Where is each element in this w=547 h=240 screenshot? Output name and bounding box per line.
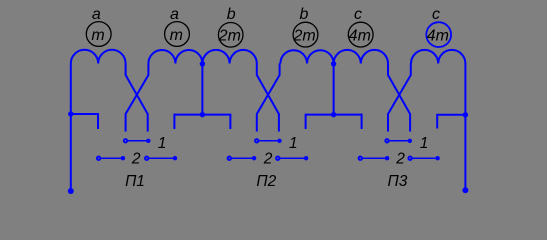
switch П2 row 2 left dot [252, 156, 256, 160]
switch П2 contact row 1 bar [258, 140, 279, 142]
inductor winding L3 (section b, value 2m) [202, 50, 256, 64]
switch П1 row 2 left dot [121, 156, 125, 160]
wire crossover X1: L2 left lead [126, 64, 149, 132]
svg-text:m: m [91, 27, 104, 44]
svg-text:a: a [170, 6, 179, 23]
svg-text:c: c [354, 6, 362, 23]
switch П2 row 2 right bar [279, 157, 305, 159]
switch П1 row 1 dot [146, 139, 150, 143]
svg-text:П1: П1 [125, 173, 145, 190]
switch П3 row 1 dot [408, 139, 412, 143]
wire crossover X2: L3 right lead [257, 64, 279, 132]
svg-text:a: a [92, 6, 101, 23]
inductor winding L4 (section b, value 2m) [280, 50, 333, 63]
inductor winding L1 (section a, value m) [71, 50, 126, 64]
value circle of L4 [293, 22, 318, 47]
wire crossover X1: L1 right lead [126, 64, 148, 132]
value circle of L2 [165, 22, 190, 47]
svg-text:1: 1 [158, 135, 167, 152]
wire crossover X3: L5 right lead [388, 64, 410, 132]
switch П2 row 1 dot [277, 139, 281, 143]
svg-text:4m: 4m [349, 27, 371, 44]
left terminal dot [68, 188, 74, 194]
inductor winding L2 (section a, value m) [148, 50, 202, 63]
wire bus 2 [306, 115, 362, 129]
switch П3 contact row 1 bar [388, 140, 409, 142]
switch П2 row 1 pivot ring [255, 139, 258, 142]
junction bus 2 node [331, 112, 336, 117]
svg-text:m: m [170, 27, 183, 44]
svg-text:2m: 2m [218, 27, 241, 44]
switch П3 row 2 right dot [435, 156, 439, 160]
wire crossover X3: L6 left lead [388, 64, 411, 132]
junction right terminal node [463, 112, 468, 117]
value circle of L5 [348, 22, 373, 47]
switch П1 row 2 right pivot ring [145, 157, 148, 160]
svg-text:2: 2 [395, 151, 405, 168]
wire bus 1 [174, 115, 230, 129]
switch П3 row 2 left pivot ring [359, 157, 362, 160]
wire right terminal lead [464, 64, 466, 191]
switch П1 row 2 left bar [100, 157, 122, 159]
switch П2 row 2 left pivot ring [228, 157, 231, 160]
switch П1 contact row 1 bar [127, 140, 148, 142]
switch П2 row 2 right dot [304, 156, 308, 160]
value circle of L6 (blue) [426, 22, 451, 47]
junction tap2 top node [331, 61, 336, 66]
wire right terminal branch to switch П3 [437, 115, 465, 129]
switch П3 row 2 left dot [385, 156, 389, 160]
svg-text:2m: 2m [292, 27, 315, 44]
right terminal dot [462, 187, 468, 193]
junction tap1 top node [200, 61, 205, 66]
svg-text:П3: П3 [387, 173, 407, 190]
wire crossover X2: L4 left lead [257, 64, 280, 132]
junction bus 1 node [200, 112, 205, 117]
switch П1 row 2 right dot [173, 156, 177, 160]
svg-text:c: c [432, 6, 440, 23]
switch П3 row 2 right pivot ring [408, 157, 411, 160]
svg-text:2: 2 [263, 151, 273, 168]
wire left terminal branch to switch П1 [71, 114, 98, 129]
value circle of L1 [86, 22, 111, 47]
switch П1 row 1 pivot ring [124, 139, 127, 142]
svg-text:1: 1 [289, 135, 298, 152]
svg-text:2: 2 [131, 151, 141, 168]
svg-text:b: b [227, 6, 236, 23]
switch П3 row 1 pivot ring [385, 139, 388, 142]
svg-text:1: 1 [420, 135, 429, 152]
value circle of L3 [218, 23, 243, 48]
svg-text:b: b [300, 6, 309, 23]
wire tap of node between L4 and L5 [333, 59, 335, 115]
svg-text:4m: 4m [427, 27, 449, 44]
switch П2 row 2 left bar [230, 157, 253, 159]
switch П1 row 2 right bar [148, 157, 174, 159]
wire tap of node between L2 and L3 [201, 59, 203, 115]
switch П3 row 2 left bar [361, 157, 386, 159]
wire left terminal lead [70, 64, 72, 192]
switch П3 row 2 right bar [411, 157, 437, 159]
svg-text:П2: П2 [256, 173, 276, 190]
junction left terminal node [68, 111, 73, 116]
inductor winding L5 (section c, value 4m) [334, 50, 388, 64]
inductor winding L6 (section c, value 4m) [411, 50, 465, 64]
switch П1 row 2 left pivot ring [97, 157, 100, 160]
switch П2 row 2 right pivot ring [276, 157, 279, 160]
